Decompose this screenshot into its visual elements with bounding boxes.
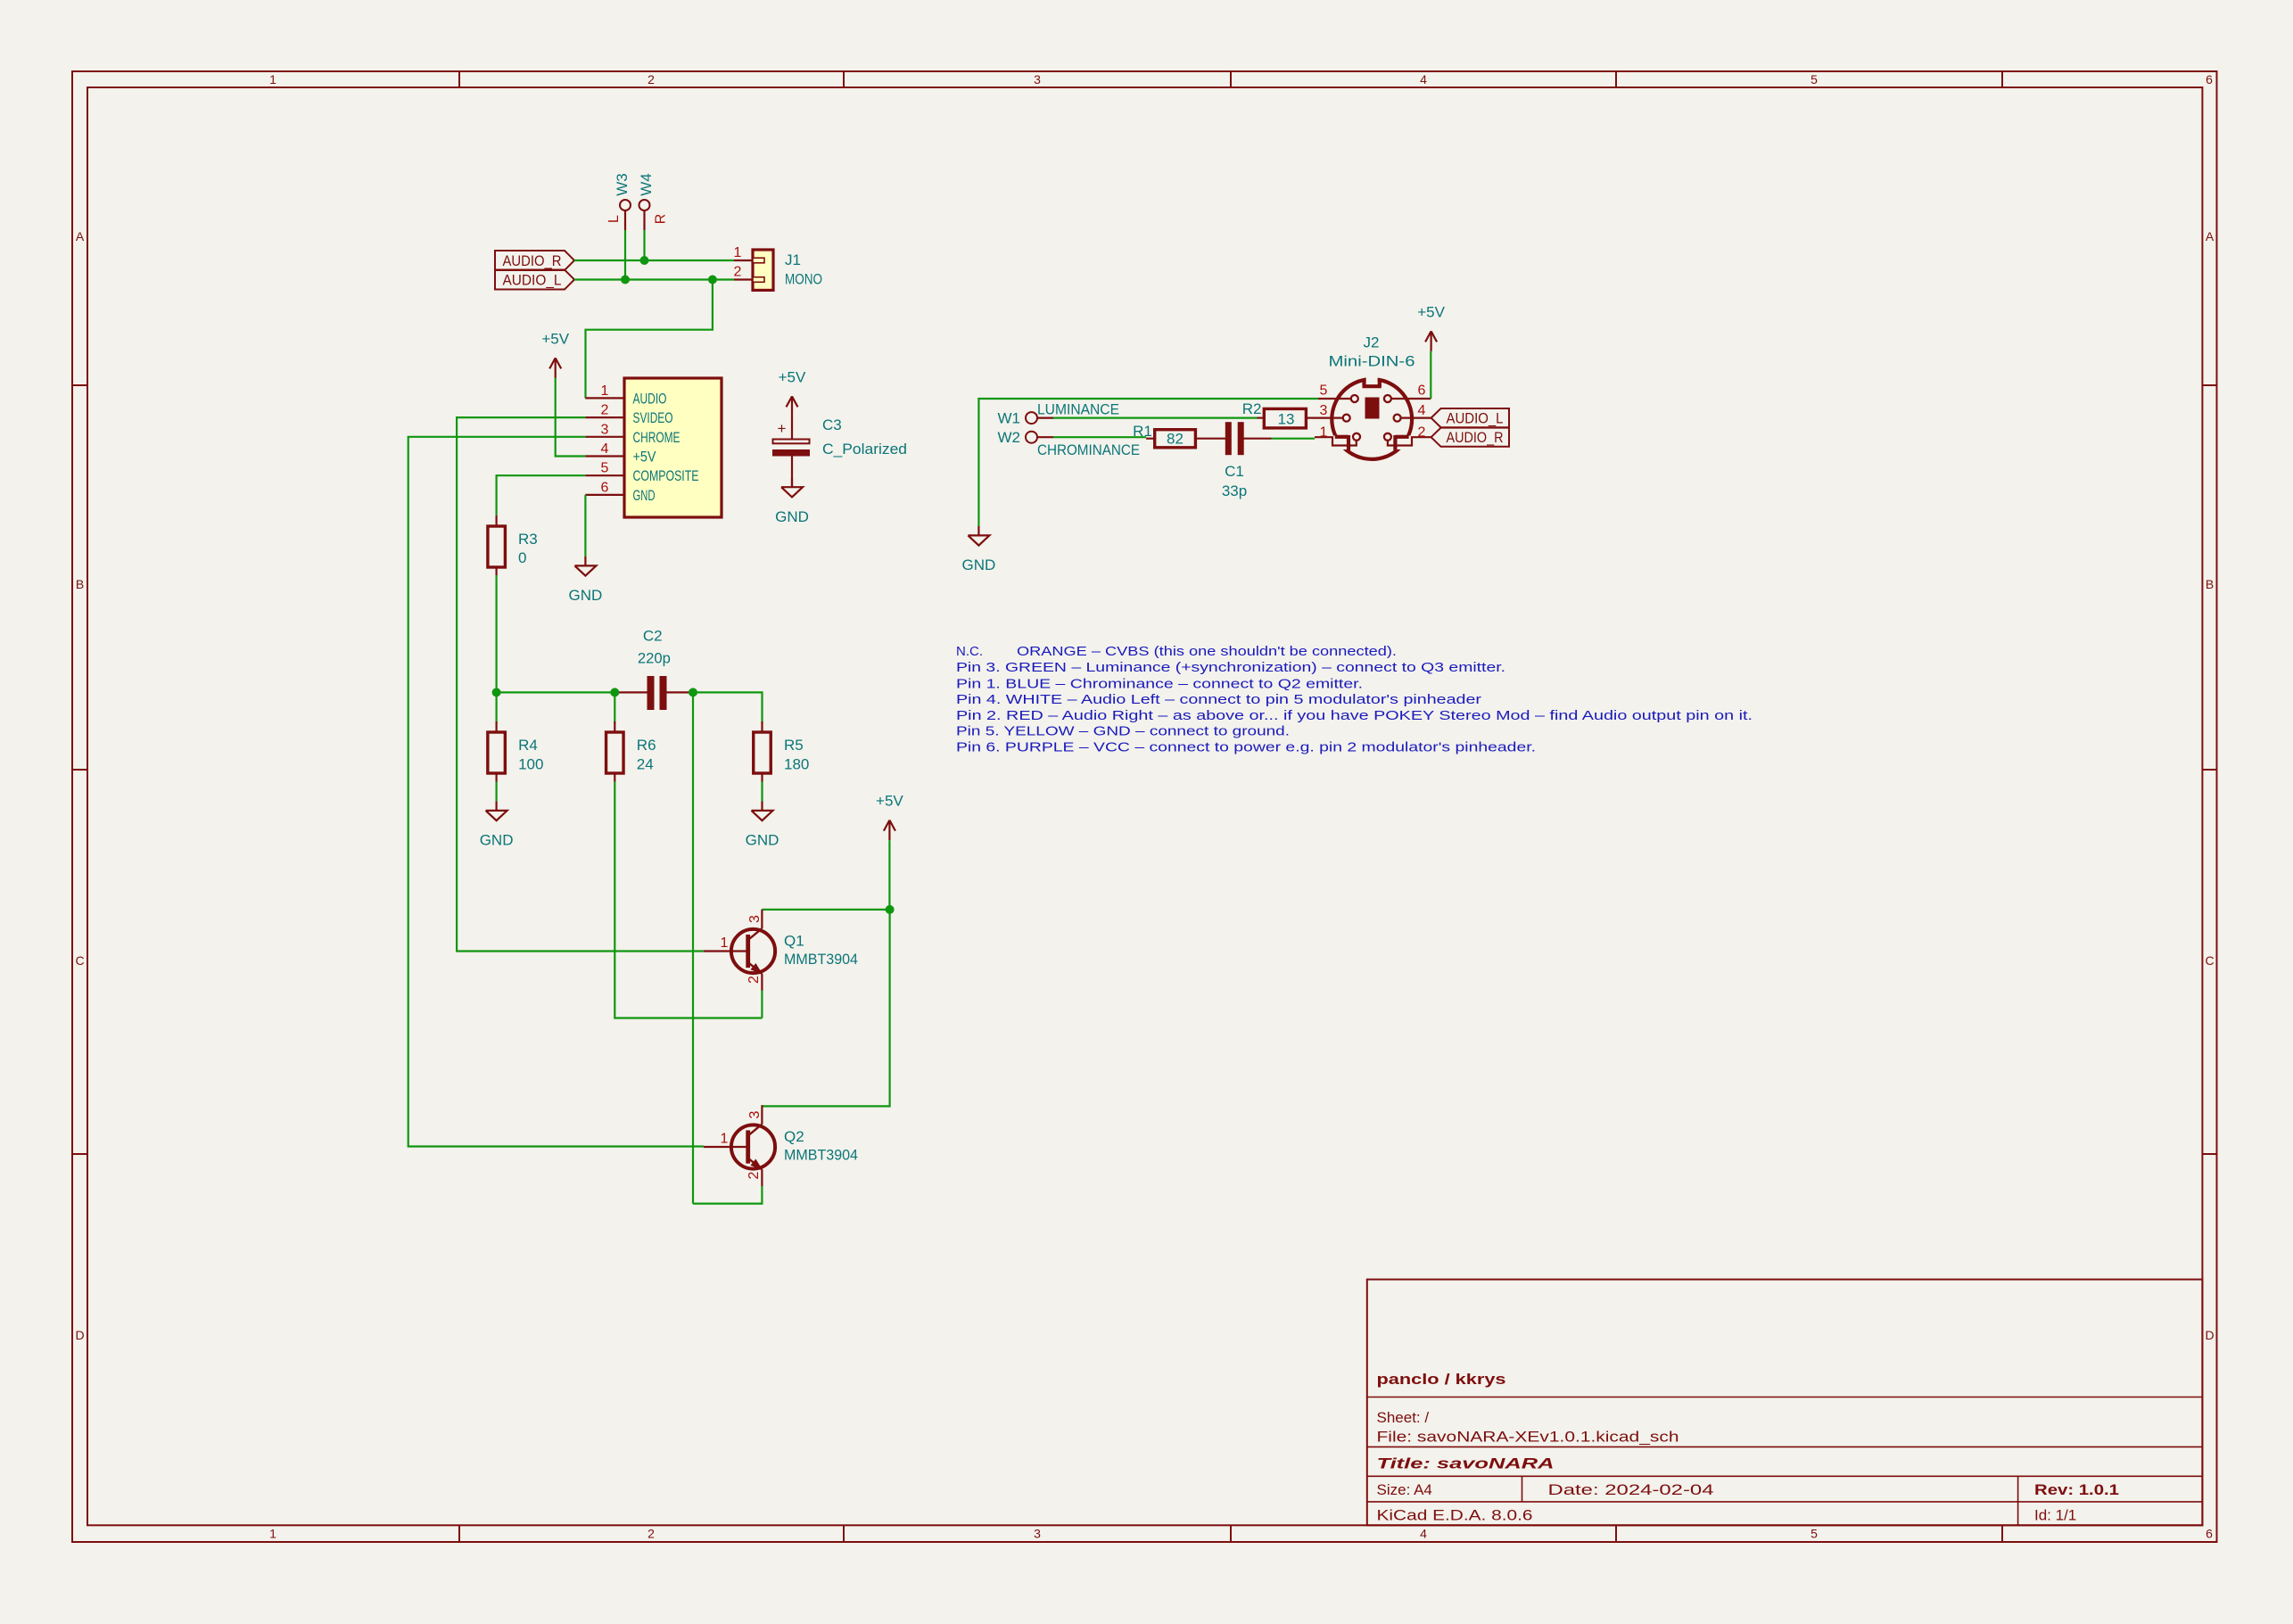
junction R6/C2	[610, 688, 619, 697]
wire R4 to ground	[495, 782, 497, 802]
svg-text:C3: C3	[822, 416, 842, 433]
svg-text:220p: 220p	[638, 650, 671, 667]
wire R3 to C2 node	[495, 575, 497, 692]
svg-text:A: A	[2206, 229, 2215, 243]
wire W2 CHROMINANCE to R1	[1053, 436, 1146, 438]
wire C2 right node down	[692, 692, 694, 1203]
modulator pin 2 SVIDEO	[585, 416, 624, 418]
svg-text:GND: GND	[746, 832, 779, 849]
global label AUDIO_R	[495, 251, 574, 270]
svg-text:AUDIO_R: AUDIO_R	[503, 252, 562, 269]
svg-text:3: 3	[747, 915, 763, 923]
svg-text:+5V: +5V	[876, 793, 903, 810]
ground below R4	[480, 802, 514, 849]
svg-text:KiCad E.D.A. 8.0.6: KiCad E.D.A. 8.0.6	[1377, 1507, 1533, 1524]
svg-text:R: R	[653, 214, 668, 225]
svg-text:1: 1	[269, 1527, 276, 1541]
svg-text:GND: GND	[633, 487, 656, 504]
transistor Q2 MMBT3904	[704, 1105, 858, 1186]
svg-text:Q2: Q2	[784, 1128, 804, 1145]
wire modulator GND pin to ground	[584, 495, 586, 556]
svg-text:MMBT3904: MMBT3904	[784, 951, 858, 968]
wire modulator SVIDEO to Q1 base	[457, 417, 704, 951]
svg-text:R5: R5	[784, 737, 804, 754]
modulator pin 3 CHROME	[585, 436, 624, 438]
svg-text:D: D	[2205, 1328, 2214, 1342]
svg-text:3: 3	[1034, 1527, 1041, 1541]
modulator pin 1 AUDIO	[585, 397, 624, 399]
svg-text:COMPOSITE: COMPOSITE	[633, 467, 699, 484]
power +5V above Q1	[876, 793, 903, 841]
frame zone letters right	[2205, 229, 2214, 1342]
connector J2 Mini-DIN-6	[1306, 334, 1431, 459]
ground left of J2	[962, 526, 996, 573]
svg-text:AUDIO_R: AUDIO_R	[1447, 429, 1504, 446]
svg-text:W2: W2	[998, 429, 1021, 446]
modulator pinheader symbol	[585, 378, 722, 517]
ground below R5	[746, 802, 779, 849]
svg-text:1: 1	[269, 72, 276, 87]
junction AUDIO_L branch	[708, 276, 717, 284]
capacitor C3	[773, 416, 908, 487]
svg-text:4: 4	[1418, 403, 1426, 418]
svg-text:6: 6	[1418, 383, 1426, 399]
svg-text:MMBT3904: MMBT3904	[784, 1147, 858, 1164]
wire +5V to modulator pin 4	[556, 378, 586, 457]
svg-text:5: 5	[1810, 1527, 1818, 1541]
junction C2/R5/Q2	[689, 688, 697, 697]
resistor R6	[606, 721, 656, 782]
svg-text:LUMINANCE: LUMINANCE	[1037, 401, 1119, 418]
svg-text:1: 1	[601, 383, 609, 399]
svg-text:Rev: 1.0.1: Rev: 1.0.1	[2034, 1481, 2119, 1498]
svg-text:3: 3	[1320, 403, 1328, 418]
svg-text:2: 2	[601, 403, 609, 418]
svg-text:W3: W3	[614, 173, 631, 196]
wire C1 to DIN pin1	[1272, 438, 1316, 440]
J2 pin 4	[1400, 417, 1431, 419]
svg-text:AUDIO_L: AUDIO_L	[503, 272, 562, 289]
svg-text:R2: R2	[1242, 400, 1262, 417]
wire C2 to R4	[495, 692, 497, 723]
power +5V above J2	[1417, 303, 1445, 351]
svg-text:C1: C1	[1225, 463, 1244, 480]
svg-text:2: 2	[647, 72, 655, 87]
frame zone numbers top	[269, 72, 2213, 87]
svg-text:+5V: +5V	[779, 368, 806, 385]
wire Q1 emitter to R6	[761, 991, 763, 1018]
svg-text:0: 0	[518, 549, 526, 566]
svg-text:Title: savoNARA: Title: savoNARA	[1377, 1455, 1555, 1472]
svg-text:C: C	[75, 953, 84, 968]
power +5V above C3	[779, 368, 806, 416]
jumper W4	[638, 173, 668, 230]
frame zone numbers bottom	[269, 1527, 2213, 1541]
svg-text:1: 1	[721, 936, 729, 951]
svg-text:4: 4	[601, 441, 609, 457]
svg-text:Size: A4: Size: A4	[1377, 1481, 1432, 1498]
unconnected pin W1	[998, 410, 1054, 427]
wire modulator COMPOSITE to R3	[497, 475, 586, 515]
wire Q2 emitter to C2 right node	[693, 1186, 762, 1204]
svg-text:J2: J2	[1364, 334, 1380, 351]
wire R6 to Q1 emitter	[614, 782, 762, 1018]
svg-text:Sheet: /: Sheet: /	[1377, 1409, 1430, 1426]
wire Q1 collector to +5V node	[762, 909, 889, 911]
svg-text:5: 5	[601, 461, 609, 476]
svg-text:Pin 1. BLUE – Chrominance – co: Pin 1. BLUE – Chrominance – connect to Q…	[956, 677, 1363, 692]
svg-text:AUDIO_L: AUDIO_L	[1447, 410, 1504, 427]
svg-text:+5V: +5V	[1417, 303, 1445, 320]
wire R5 to ground	[761, 782, 763, 802]
svg-text:R4: R4	[518, 737, 538, 754]
jumper W3	[606, 173, 631, 230]
junction W3/AUDIO_L	[621, 276, 630, 284]
frame zone letters left	[75, 229, 84, 1342]
wire W1 LUMINANCE to R2	[1053, 417, 1258, 419]
svg-text:Id: 1/1: Id: 1/1	[2034, 1507, 2076, 1524]
svg-text:4: 4	[1420, 1527, 1427, 1541]
wire J1 pin2 to modulator AUDIO pin	[586, 280, 713, 399]
svg-text:B: B	[76, 577, 84, 591]
J2 pin 2	[1388, 437, 1431, 445]
svg-text:panclo / kkrys: panclo / kkrys	[1377, 1371, 1506, 1388]
wire W3 to AUDIO_L net	[624, 230, 626, 280]
svg-text:R3: R3	[518, 531, 538, 548]
svg-text:2: 2	[1418, 425, 1426, 441]
modulator pin 4 +5V	[585, 455, 624, 457]
svg-text:6: 6	[2206, 72, 2213, 87]
resistor R3	[488, 515, 538, 575]
ground below modulator	[569, 556, 603, 604]
svg-text:82: 82	[1167, 431, 1184, 448]
J2 pin 1	[1315, 437, 1357, 445]
svg-text:AUDIO: AUDIO	[633, 390, 667, 407]
svg-text:33p: 33p	[1222, 482, 1247, 499]
unconnected pin W2	[998, 429, 1054, 446]
wire +5V node to Q2 collector	[762, 910, 889, 1107]
junction R3/R4/C2	[492, 688, 501, 697]
junction +5V/Q1/Q2	[886, 905, 895, 914]
ground below C3	[775, 478, 809, 525]
svg-text:Pin 4. WHITE – Audio Left – co: Pin 4. WHITE – Audio Left – connect to p…	[956, 692, 1481, 707]
modulator pin 5 COMPOSITE	[585, 474, 624, 476]
svg-text:B: B	[2206, 577, 2214, 591]
resistor R5	[754, 721, 810, 782]
svg-text:D: D	[75, 1328, 84, 1342]
junction W4/AUDIO_R	[640, 256, 649, 265]
svg-text:Pin 6. PURPLE – VCC – connect: Pin 6. PURPLE – VCC – connect to power e…	[956, 740, 1536, 755]
J2 pin 5	[1318, 398, 1351, 400]
svg-text:Q1: Q1	[784, 933, 804, 950]
svg-text:1: 1	[734, 245, 742, 260]
capacitor C1	[1195, 423, 1271, 499]
wire C2 node right to R5	[689, 692, 763, 723]
svg-text:+5V: +5V	[541, 330, 569, 347]
svg-text:GND: GND	[480, 832, 514, 849]
svg-text:2: 2	[734, 265, 742, 280]
svg-text:SVIDEO: SVIDEO	[633, 409, 673, 426]
connector J1 MONO	[734, 245, 822, 290]
wire AUDIO_R to J1 pin 1	[574, 260, 734, 261]
wire +5V to Q1 collector node	[888, 840, 890, 910]
resistor R2	[1242, 400, 1307, 428]
svg-text:MONO: MONO	[785, 271, 822, 288]
svg-text:180: 180	[784, 756, 809, 773]
svg-text:Pin 5. YELLOW – GND – connect: Pin 5. YELLOW – GND – connect to ground.	[956, 724, 1290, 739]
svg-text:24: 24	[637, 756, 654, 773]
svg-text:File: savoNARA-XEv1.0.1.kicad_: File: savoNARA-XEv1.0.1.kicad_sch	[1377, 1429, 1679, 1446]
power +5V near J1	[541, 330, 569, 378]
J2 pin 6	[1391, 398, 1431, 400]
title block	[1367, 1280, 2203, 1526]
svg-text:GND: GND	[775, 508, 809, 525]
svg-text:13: 13	[1278, 411, 1295, 428]
wire AUDIO_L to J1 pin 2	[574, 278, 734, 280]
svg-text:N.C.: N.C.	[956, 644, 983, 659]
svg-text:C: C	[2205, 953, 2214, 968]
svg-text:1: 1	[721, 1132, 729, 1147]
resistor R4	[488, 721, 544, 782]
J2 pin 3	[1306, 417, 1343, 419]
svg-text:R6: R6	[637, 737, 656, 754]
svg-text:5: 5	[1810, 72, 1818, 87]
wire W4 to AUDIO_R net	[643, 230, 645, 260]
svg-text:+: +	[778, 420, 787, 437]
global label AUDIO_L	[495, 270, 574, 290]
svg-text:100: 100	[518, 756, 543, 773]
svg-text:3: 3	[1034, 72, 1041, 87]
svg-text:C2: C2	[643, 628, 663, 645]
svg-text:2: 2	[647, 1527, 655, 1541]
svg-text:W4: W4	[638, 173, 655, 196]
wire +5V to DIN pin6	[1430, 351, 1431, 399]
svg-text:C_Polarized: C_Polarized	[822, 441, 907, 458]
svg-text:6: 6	[2206, 1527, 2213, 1541]
svg-text:GND: GND	[569, 587, 603, 604]
svg-text:CHROMINANCE: CHROMINANCE	[1037, 441, 1140, 458]
svg-text:L: L	[606, 215, 622, 223]
wire C2 to R6	[614, 692, 615, 723]
global label AUDIO_L at J2	[1431, 408, 1509, 427]
svg-text:Pin 3. GREEN – Luminance (+syn: Pin 3. GREEN – Luminance (+synchronizati…	[956, 660, 1505, 675]
svg-text:+5V: +5V	[633, 449, 657, 466]
modulator pin 6 GND	[585, 494, 624, 496]
svg-text:5: 5	[1320, 383, 1328, 399]
wire DIN pin5 to ground branch	[978, 399, 1318, 526]
svg-text:Date: 2024-02-04: Date: 2024-02-04	[1548, 1481, 1714, 1498]
global label AUDIO_R at J2	[1431, 428, 1509, 447]
svg-text:Mini-DIN-6: Mini-DIN-6	[1329, 353, 1415, 370]
svg-text:1: 1	[1320, 425, 1328, 441]
svg-text:ORANGE – CVBS (this one should: ORANGE – CVBS (this one shouldn't be con…	[1017, 644, 1397, 659]
svg-text:R1: R1	[1133, 423, 1152, 440]
wire modulator CHROME to Q2 base	[408, 437, 704, 1147]
svg-text:3: 3	[747, 1110, 763, 1118]
svg-text:2: 2	[746, 1171, 762, 1179]
svg-text:Pin 2. RED – Audio Right – as: Pin 2. RED – Audio Right – as above or..…	[956, 708, 1753, 723]
wire C2 node left	[497, 691, 618, 693]
svg-text:3: 3	[601, 422, 609, 437]
transistor Q1 MMBT3904	[704, 910, 858, 991]
svg-text:J1: J1	[785, 251, 801, 268]
svg-text:6: 6	[601, 480, 609, 495]
resistor R1	[1133, 423, 1195, 448]
svg-text:A: A	[76, 229, 85, 243]
svg-text:CHROME: CHROME	[633, 429, 680, 446]
svg-text:2: 2	[746, 976, 762, 984]
svg-text:W1: W1	[998, 410, 1021, 427]
svg-text:GND: GND	[962, 556, 996, 573]
svg-text:4: 4	[1420, 72, 1427, 87]
capacitor C2	[618, 628, 689, 710]
schematic notes text	[956, 644, 1753, 755]
